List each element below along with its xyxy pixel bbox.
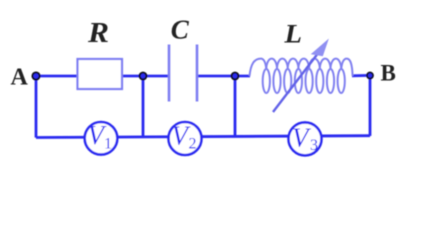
wire bottom rail xyxy=(36,136,370,138)
svg-text:C: C xyxy=(171,14,190,44)
wire capacitor right plate to coil xyxy=(197,75,250,78)
svg-text:B: B xyxy=(381,61,396,86)
wire coil to node B xyxy=(352,74,370,77)
variable-inductor arrow shaft xyxy=(273,53,319,112)
svg-text:R: R xyxy=(87,17,109,49)
wire top rail A to resistor xyxy=(36,75,78,78)
wire vertical from junction after R xyxy=(142,76,145,137)
voltmeter V2 circle xyxy=(169,122,202,155)
svg-text:2: 2 xyxy=(189,136,197,153)
voltmeter V1 circle xyxy=(85,122,118,155)
junction dot after C xyxy=(232,73,239,80)
svg-text:1: 1 xyxy=(104,136,112,153)
wire vertical from B down xyxy=(369,75,372,135)
capacitor C right plate xyxy=(196,45,199,102)
junction dot after R xyxy=(140,73,147,80)
resistor R xyxy=(78,59,123,89)
svg-text:3: 3 xyxy=(310,137,318,154)
node A terminal xyxy=(32,72,39,79)
wire vertical from A down xyxy=(35,76,38,138)
capacitor C left plate xyxy=(168,45,171,102)
svg-text:A: A xyxy=(11,65,29,91)
voltmeter V3 circle xyxy=(289,122,322,155)
variable-inductor arrow head xyxy=(311,39,329,57)
wire vertical from junction after C xyxy=(234,76,237,137)
wire resistor to capacitor left plate xyxy=(122,75,169,78)
inductor L coil loops xyxy=(263,69,345,93)
svg-text:L: L xyxy=(283,20,302,49)
inductor L coil arcs xyxy=(250,59,267,76)
node B dot xyxy=(367,73,373,79)
